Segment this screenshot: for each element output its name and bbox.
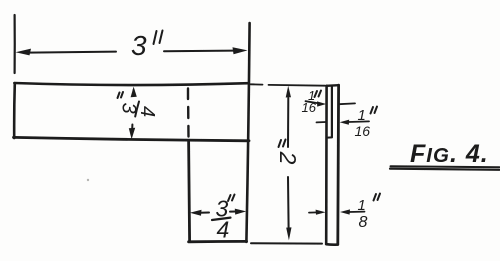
inch ticks 1/8: [374, 194, 381, 201]
1/8 right arrow shaft: [349, 211, 365, 213]
svg-text:4: 4: [136, 106, 158, 117]
arrowhead 1/8-left: [316, 210, 326, 215]
inch ticks rect 3/4: [118, 92, 124, 98]
FIG 4 underline: [391, 166, 500, 167]
3/4 vertical dim arrows (in rect): [133, 90, 135, 96]
arrowhead 1/16-left: [317, 101, 326, 106]
svg-text:2: 2: [275, 151, 301, 165]
right 1/16 left stub: [317, 121, 327, 123]
arrowhead 1/16-right: [340, 120, 350, 125]
3 inch dimension line: [28, 52, 116, 53]
svg-text:3: 3: [131, 30, 147, 61]
leg 3/4 fraction bar: [212, 218, 231, 220]
2 inch bottom extension line: [251, 242, 322, 244]
leg left edge: [189, 141, 190, 242]
inch ticks left 1/16: [315, 91, 322, 98]
3 inch dimension: left extension line: [14, 15, 16, 73]
arrowhead 1/8-right: [340, 209, 350, 214]
svg-text:16: 16: [355, 123, 371, 139]
arrowhead leg-3/4 left: [190, 210, 202, 216]
arrowhead 3/4 up: [131, 87, 137, 98]
1/8 left arrow shaft: [309, 211, 318, 213]
leg bottom edge: [189, 240, 247, 243]
leg 3/4 dim arrows: [200, 212, 209, 214]
3/4 slash in rect: [135, 102, 139, 117]
svg-text:16: 16: [302, 100, 317, 115]
arrowhead 3in right: [233, 47, 248, 54]
2 inch dim line: [287, 98, 289, 147]
svg-text:1: 1: [358, 197, 366, 214]
inch ticks right 1/16: [371, 107, 378, 114]
arrowhead 3in left: [16, 49, 32, 56]
front view T-shape outline: [14, 83, 248, 85]
right 1/16 upper leader: [339, 102, 355, 105]
arrowhead 2in up: [286, 86, 291, 98]
inch ticks leg 3/4: [228, 195, 235, 202]
side view strip outline: [325, 86, 328, 244]
arrowhead 3/4 down: [129, 128, 135, 139]
svg-text:FIG. 4.: FIG. 4.: [410, 140, 489, 168]
paper speck: [87, 179, 89, 181]
arrowhead leg-3/4 right: [235, 209, 246, 215]
inch ticks for top 3: [154, 31, 163, 45]
svg-text:8: 8: [359, 214, 368, 231]
inch ticks 2in: [279, 140, 286, 148]
2 inch top extension line: [251, 84, 326, 85]
svg-text:4: 4: [217, 217, 230, 243]
svg-text:1: 1: [358, 107, 366, 124]
left 1/16 bar + arrow shaft: [306, 101, 320, 103]
strip inner step line: [331, 86, 333, 137]
arrowhead 2in down: [286, 227, 291, 240]
hidden dashed line: [187, 89, 190, 137]
right 1/16 arrow shaft: [349, 120, 370, 123]
